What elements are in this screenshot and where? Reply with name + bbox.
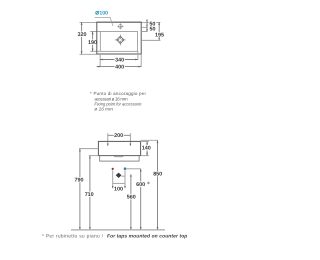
arrow 560 top [130, 174, 132, 177]
extension tick 50 row 2 [141, 31, 147, 33]
arrow 560 bottom [130, 227, 132, 230]
extension 790 stub [79, 148, 98, 150]
dimension 560 vertical [130, 175, 132, 230]
arrow 600 top [140, 169, 142, 172]
svg-text:600: 600 [136, 182, 145, 188]
svg-text:For taps mounted on counter to: For taps mounted on counter top [107, 234, 187, 240]
leader blue point to 600 [126, 168, 140, 170]
arrow 600 bottom [140, 227, 142, 230]
arrow 100 right down [124, 186, 126, 189]
svg-text:850: 850 [153, 172, 162, 178]
dimension 710 vertical [89, 156, 91, 230]
svg-text:140: 140 [142, 146, 151, 152]
svg-text:ø 16 mm: ø 16 mm [94, 107, 113, 112]
svg-text:790: 790 [75, 177, 84, 183]
arrow 50 at lower tick [146, 29, 148, 31]
arrow 400 left [97, 66, 100, 68]
arrow 790 bottom [79, 227, 81, 230]
extension tick 50 row 1 (tap row) [141, 26, 147, 28]
extension drain row right [141, 39, 160, 41]
dimension 200 line [108, 134, 131, 136]
dimension 140 vertical [146, 141, 148, 155]
svg-text:* Per rubinetto su piano /: * Per rubinetto su piano / [42, 234, 104, 240]
drain boss notch [114, 156, 124, 157]
svg-text:195: 195 [155, 32, 164, 38]
arrow 195 bottom [158, 37, 160, 40]
inner basin rect (plan) [100, 32, 137, 52]
extension 190 top stub [90, 31, 100, 33]
basin body front rect [98, 141, 140, 155]
svg-text:190: 190 [88, 40, 97, 46]
arrow 140 bottom [146, 153, 148, 156]
extension 200 left drop [107, 133, 109, 144]
outer rect (washbasin plan) [97, 22, 141, 54]
basin lower box [100, 156, 139, 162]
leader diagonal [110, 17, 113, 25]
dimension 50/50 vertical [146, 20, 148, 32]
svg-text:100: 100 [114, 187, 123, 193]
arrow 850 bottom [157, 227, 159, 230]
arrow 100 left down [112, 186, 114, 189]
dimension 400 line [97, 66, 142, 68]
dimension 320 vertical line [81, 22, 83, 54]
svg-text:320: 320 [78, 32, 87, 38]
connector 100 dim [113, 182, 125, 184]
arrow 200 left down [107, 144, 109, 147]
arrow 340 left [100, 59, 103, 61]
extension 140 top tick [141, 140, 149, 142]
waste drain diamond (front) [116, 173, 122, 178]
extension 340/400 left vertical [99, 54, 101, 67]
top edge extension line [80, 21, 161, 23]
svg-text:400: 400 [115, 65, 124, 71]
dimension 190 vertical line [92, 32, 94, 52]
label diameter 100 (teal) [96, 11, 99, 15]
arrow 200 right down [130, 144, 132, 147]
arrow 190 bottom [92, 49, 94, 52]
dimension 600 vertical [140, 169, 142, 230]
stub diamond to blue drop [122, 175, 125, 177]
hot water point (red) [112, 168, 114, 170]
dimension 850 vertical [157, 140, 159, 230]
cold water point (blue) [124, 167, 127, 170]
dimension 340 line [100, 59, 138, 61]
asterisk star after 600 [147, 182, 149, 185]
drop from red point [112, 170, 114, 186]
svg-text:560: 560 [127, 194, 136, 200]
arrow 710 top [89, 156, 91, 159]
extension 340 right vertical [137, 51, 139, 60]
leader underline [95, 16, 111, 18]
extension 850 tick [141, 139, 158, 141]
extension 200 right drop [129, 133, 131, 144]
arrow 340 right [135, 59, 138, 61]
floor line [71, 229, 165, 231]
arrow 50 at top tick [146, 20, 148, 22]
arrow 850 top [157, 140, 159, 143]
svg-text:100: 100 [99, 11, 108, 17]
arrow 790 top [79, 149, 81, 152]
arrow 50 at mid tick [146, 25, 148, 27]
tap hole cross (plan) [117, 23, 123, 29]
extension 400 right vertical [140, 54, 142, 67]
bottom-left extension stub [80, 53, 97, 55]
extension 710 stub [89, 155, 99, 157]
svg-text:710: 710 [85, 192, 94, 198]
arrow 140 top [146, 141, 148, 144]
arrow 190 top [92, 32, 94, 35]
dimension 790 vertical [79, 149, 81, 230]
arrow 195 top [158, 22, 160, 25]
extension 190 bottom stub [90, 50, 100, 52]
arrow 400 right [138, 66, 141, 68]
dimension 195 vertical [158, 22, 160, 40]
svg-text:200: 200 [114, 133, 123, 139]
arrow 320 bottom [81, 51, 83, 54]
drop from blue point [124, 170, 126, 186]
extension 140 bottom tick [141, 155, 149, 157]
arrow 320 top [81, 22, 83, 25]
svg-text:340: 340 [115, 58, 124, 64]
drain symbol (plan) [115, 35, 126, 46]
arrow 710 bottom [89, 227, 91, 230]
